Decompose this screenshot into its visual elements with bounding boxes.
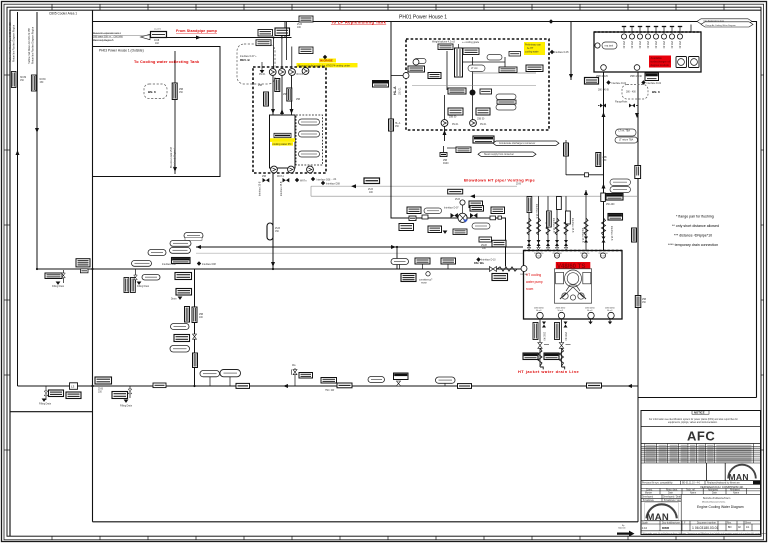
ellipse near x=638 (615, 137, 638, 143)
svg-text:25B 40: 25B 40 (622, 41, 624, 49)
engine cross-section graphic (554, 269, 591, 303)
drain set A below bus269 (45, 273, 62, 279)
engine supply flex columns (528, 196, 530, 250)
ellipse LT circuit TBA (468, 65, 485, 72)
ellipse left small (414, 59, 426, 64)
svg-text:water pump: water pump (526, 280, 543, 284)
svg-text:Rev.: Rev. (727, 522, 732, 524)
svg-text:Filling Drain: Filling Drain (39, 403, 52, 406)
C805 cooler area right wall (92, 10, 94, 522)
instrument on x=566 (564, 143, 569, 156)
svg-text:** only short distance allowed: ** only short distance allowed (672, 224, 719, 228)
svg-text:25B: 25B (296, 99, 301, 101)
svg-text:Interface 25-B: Interface 25-B (581, 228, 584, 243)
title block left boundary (638, 398, 757, 522)
small rects (409, 216, 416, 221)
svg-text:Turbine Salt Water Pipe 1 NO-3: Turbine Salt Water Pipe 1 NO-39A 05B (9, 22, 12, 62)
riser x=397 (396, 247, 398, 269)
tag left column b (428, 73, 441, 79)
small tag on bus386 x153 (153, 383, 166, 388)
svg-text:exp.tank: exp.tank (605, 45, 615, 48)
svg-text:L3: L3 (71, 385, 75, 389)
module bottom pumps (271, 166, 278, 173)
tag right column (526, 65, 543, 72)
svg-text:Filling Drain: Filling Drain (52, 285, 65, 288)
svg-text:IN GRADE: IN GRADE (320, 59, 333, 63)
svg-text:Interface 25-B: Interface 25-B (610, 226, 613, 241)
svg-text:Released: Released (730, 489, 740, 491)
HT supply pipe x=391 (391, 22, 506, 267)
svg-text:Main body Region 1: Main body Region 1 (175, 147, 177, 168)
svg-text:1018: 1018 (154, 40, 160, 42)
valve on bus269 x489 (490, 267, 497, 272)
tags lower (448, 108, 463, 115)
heat exchanger column (455, 48, 463, 77)
svg-text:25B: 25B (179, 89, 184, 91)
svg-text:cooling water: cooling water (525, 51, 539, 54)
svg-text:**** temporary drain connectio: **** temporary drain connection (668, 243, 718, 247)
tag above module 2 (275, 28, 290, 36)
tag (456, 147, 471, 153)
svg-text:Main body Region 5: Main body Region 5 (93, 40, 114, 42)
svg-text:50 m3: 50 m3 (587, 310, 592, 312)
tag x458 on bus386 (458, 384, 472, 389)
expansion tank box (594, 32, 701, 72)
tank vent stubs (623, 27, 625, 34)
tag on bus386 x236 (236, 383, 250, 388)
right flex columns (584, 218, 588, 236)
svg-text:B.Gabriele / Lau: B.Gabriele / Lau (664, 499, 681, 502)
svg-text:LT circ.: LT circ. (471, 67, 479, 70)
MAN logo right (728, 465, 756, 479)
svg-text:25B 40: 25B 40 (646, 41, 648, 49)
svg-text:Previous file sys. compatibili: Previous file sys. compatibility (642, 482, 673, 485)
svg-text:consistency?: consistency? (419, 279, 433, 282)
svg-text:Steam supply from conserver: Steam supply from conserver (484, 153, 514, 156)
svg-text:25B: 25B (603, 157, 608, 159)
tag above module 1b (256, 40, 271, 46)
right main vertical pipe x=638 (637, 72, 639, 522)
junction dot riser (396, 246, 398, 248)
svg-text:RV-01: RV-01 (297, 74, 304, 76)
tank internals right (676, 57, 687, 68)
tags below tank (585, 78, 599, 85)
svg-text:25-B: 25-B (275, 228, 280, 230)
box with valve x394-408 above bus386 (394, 373, 409, 380)
L3 tag on bus386 (70, 383, 78, 390)
interface D-02 diamonds (606, 80, 610, 84)
svg-text:25B: 25B (283, 94, 288, 96)
svg-text:Const.: Const. (646, 488, 653, 491)
svg-text:LT ret. TBA: LT ret. TBA (619, 129, 631, 132)
main drain bus y=386 (18, 385, 639, 387)
strike-through source labels (93, 32, 124, 42)
svg-text:R100: R100 (443, 163, 449, 165)
svg-text:BN. 8: BN. 8 (652, 90, 660, 94)
ellipse LT below tank (616, 129, 637, 136)
tags mid cluster (448, 88, 466, 94)
svg-text:Doc-building-type: Doc-building-type (662, 521, 681, 524)
tags top row (438, 44, 453, 50)
instrument on pipe2 (31, 75, 36, 91)
ellipse stack right (496, 94, 516, 100)
tag with text below (479, 237, 492, 242)
svg-text:BE-01.11.10 - 4-0: BE-01.11.10 - 4-0 (682, 483, 701, 485)
svg-text:RV-01: RV-01 (259, 74, 266, 76)
interface D08 diamond under module (321, 181, 325, 185)
svg-text:Weight/volume 4.2 m3: Weight/volume 4.2 m3 (432, 41, 456, 44)
LT cooling water module dashed box (253, 67, 326, 173)
svg-text:Light Replenishing from: Light Replenishing from (703, 20, 724, 23)
svg-text:Sheet: Sheet (745, 521, 751, 524)
svg-text:Charge Air Cooling Water Diagr: Charge Air Cooling Water Diagram (705, 24, 736, 27)
svg-text:Turbine Salt Water Arm NO-39 0: Turbine Salt Water Arm NO-39 05B (28, 28, 31, 64)
svg-text:25B 50: 25B 50 (477, 119, 485, 121)
replenishing riser x=292 (284, 22, 286, 38)
svg-text:Name: Name (733, 493, 740, 495)
module outlet pipe x=273 (272, 173, 274, 269)
svg-text:05B water 508 ++ GHGHW: 05B water 508 ++ GHGHW (93, 36, 124, 39)
svg-text:Condensate discharge to conser: Condensate discharge to conserver (499, 142, 535, 145)
revision cloud REV.B (237, 44, 275, 84)
svg-text:NO39: NO39 (20, 77, 27, 79)
small black tag (440, 153, 447, 157)
instrument tags on flex columns (527, 197, 532, 213)
instrument on x638 upper (635, 296, 641, 308)
pipe: cooler supply left 1 (17, 12, 19, 386)
bowtie valves (451, 213, 458, 218)
flange valves (598, 104, 606, 108)
svg-text:MAN: MAN (647, 512, 670, 523)
svg-text:BN. 8: BN. 8 (148, 90, 156, 94)
svg-text:25B3 25/40: 25B3 25/40 (630, 76, 642, 78)
red engine type plate (556, 262, 591, 269)
svg-text:WAT-1: WAT-1 (277, 175, 284, 178)
engine inlet labels row (536, 253, 541, 258)
title block outer (641, 411, 761, 535)
drain tag boxes (523, 353, 538, 360)
capsule x368 on bus386 (368, 377, 385, 383)
tag mid right (499, 67, 517, 73)
drain triangle (443, 231, 448, 234)
svg-text:turbocharger oil: turbocharger oil (651, 60, 671, 64)
svg-text:280 - 40 B: 280 - 40 B (598, 90, 609, 92)
svg-text:25-B: 25-B (297, 24, 302, 26)
replenishing line y=37.5 (166, 37, 292, 39)
svg-text:150 G1: 150 G1 (400, 87, 402, 95)
ellipse top right (487, 55, 502, 61)
svg-text:AFC: AFC (687, 429, 715, 444)
pipes in HT box (446, 51, 448, 90)
svg-text:25B: 25B (443, 160, 448, 162)
svg-text:25B3 40: 25B3 40 (564, 332, 566, 341)
svg-text:HL-A: HL-A (395, 122, 401, 125)
revision cloud right (622, 85, 648, 100)
pump source box (151, 32, 167, 38)
instrument on pipe1 (11, 72, 16, 88)
revision table (641, 444, 761, 464)
TUV black mark (753, 481, 761, 485)
svg-text:MAN: MAN (729, 472, 749, 482)
svg-text:Reservoir expansion tank 1: Reservoir expansion tank 1 (93, 32, 122, 35)
svg-text:50 m3: 50 m3 (582, 255, 587, 257)
small drain stub in cloud (261, 62, 263, 70)
svg-text:VER/Watch/CA / COMPKW/M 4th: VER/Watch/CA / COMPKW/M 4th (700, 485, 744, 489)
svg-text:50 m3: 50 m3 (536, 310, 541, 312)
supply banner flag (141, 34, 151, 39)
svg-text:be HT: be HT (527, 48, 534, 50)
PH03 Power House box (93, 47, 221, 177)
svg-text:Interface D08: Interface D08 (202, 263, 217, 266)
yellow note in HT box (524, 42, 545, 55)
svg-text:Preliminary can: Preliminary can (525, 44, 542, 47)
drain riser x=194.5 (194, 269, 196, 386)
svg-text:equipments, pipings, valves an: equipments, pipings, valves and instrume… (668, 421, 718, 424)
capsule x436 stem (444, 383, 446, 386)
inline valve on x=391 (389, 119, 394, 131)
module pumps row (269, 69, 276, 76)
drain set D below bus386 (112, 392, 128, 399)
svg-text:Blowdown HT pipe/ Venting Pipe: Blowdown HT pipe/ Venting Pipe (464, 178, 535, 183)
tag on bus x=587 (587, 383, 602, 388)
gray connector (310, 186, 312, 196)
svg-text:Interface D08: Interface D08 (317, 179, 332, 182)
module instruments (264, 92, 269, 106)
svg-text:B.Gabriele: B.Gabriele (643, 499, 655, 502)
svg-text:250-400: 250-400 (606, 204, 615, 206)
svg-text:25-B: 25-B (516, 184, 521, 186)
riser components x194.5 (192, 307, 197, 323)
blue actuator mark (463, 220, 468, 223)
tag above module 3 (299, 47, 313, 54)
svg-text:50 m3: 50 m3 (607, 310, 612, 312)
svg-text:Interface 25-B: Interface 25-B (552, 218, 555, 233)
svg-text:DWR: DWR (662, 526, 670, 530)
svg-text:Document number: Document number (697, 521, 716, 524)
svg-text:Interface D-05: Interface D-05 (554, 51, 569, 54)
svg-text:Developed / Draft: Developed / Draft (663, 495, 681, 498)
svg-text:25-B: 25-B (368, 189, 373, 191)
svg-text:Interface D-07: Interface D-07 (444, 207, 459, 210)
PH01 Power House 1 boundary (93, 22, 757, 398)
svg-text:*****: ***** (566, 343, 571, 347)
svg-text:DN / Wa: DN / Wa (474, 261, 484, 265)
svg-text:xx-xxOn: xx-xxOn (154, 29, 161, 31)
svg-text:Filling Drain: Filling Drain (137, 285, 150, 288)
svg-text:*** distance ‹DNpipe*10: *** distance ‹DNpipe*10 (674, 234, 712, 238)
module solid box (270, 115, 296, 168)
black tag below HT (473, 136, 494, 143)
svg-text:degree module: degree module (651, 63, 670, 67)
tag at replenishing riser (299, 16, 313, 22)
tank outlet pipe x=603.5 (603, 72, 605, 251)
svg-text:Scale: Scale (642, 522, 648, 524)
feed lines into module top (273, 38, 275, 70)
svg-text:reuse: reuse (421, 282, 427, 285)
module yellow name tag (274, 133, 291, 137)
svg-text:REV. B: REV. B (240, 58, 251, 62)
vent gray line y=196 (311, 195, 638, 197)
junction dots on replenishing line (273, 37, 275, 39)
steam line y=175 (566, 174, 604, 176)
svg-text:Filling Drain: Filling Drain (120, 405, 133, 408)
svg-text:25B 40: 25B 40 (630, 41, 632, 49)
svg-text:Interface 25-B: Interface 25-B (280, 181, 283, 196)
capsule stems above bus386 (209, 377, 211, 386)
arrow into bus386 (283, 384, 288, 388)
gray line y=253 (196, 252, 523, 254)
tag above module 1 (258, 30, 273, 37)
svg-text:room: room (526, 287, 534, 291)
tag pair x321-352 above bus386 (321, 378, 337, 384)
svg-text:50 m3: 50 m3 (558, 310, 563, 312)
svg-text:Interface D-02: Interface D-02 (647, 82, 662, 85)
svg-text:HT jacket water drain Line: HT jacket water drain Line (518, 369, 580, 374)
three-way valve filled (470, 90, 476, 96)
ellipses right mid (610, 179, 631, 186)
ellipse LT return (424, 208, 442, 214)
svg-text:HT cooling: HT cooling (526, 273, 541, 277)
HT pipe x=571 (570, 22, 572, 81)
svg-text:25B 40: 25B 40 (654, 41, 656, 49)
svg-text:LT return TBA: LT return TBA (619, 138, 634, 141)
LT return line y=247 (196, 246, 523, 248)
drawing bottom boundary (93, 521, 639, 523)
svg-text:Gabriele: Gabriele (618, 528, 626, 530)
svg-text:*****: ***** (544, 343, 549, 347)
svg-text:Interface 25-B: Interface 25-B (535, 204, 538, 219)
notes text (668, 215, 719, 248)
internal gray pipes (412, 85, 536, 87)
revision cloud BN.8 left (144, 84, 167, 99)
consistency tag below bus269 (401, 274, 416, 282)
svg-text:Blowdown tank 25-B: Blowdown tank 25-B (170, 147, 173, 168)
instruments on vertical pipes right (596, 153, 601, 167)
banner: condensate discharge (493, 141, 559, 145)
drain set C below bus386 (45, 386, 47, 400)
svg-text:Tech. ref.: Tech. ref. (686, 488, 696, 491)
ellipse LT xx (472, 223, 490, 229)
svg-text:25B: 25B (262, 176, 267, 178)
tags lower cluster (399, 224, 414, 231)
pipe: cooler supply left 2 (36, 12, 38, 269)
steam pipes (443, 146, 445, 152)
LT transfer pump (460, 200, 465, 205)
svg-text:50 m3: 50 m3 (600, 255, 605, 257)
module dashed sub box (296, 115, 323, 165)
svg-text:25B 40: 25B 40 (638, 41, 640, 49)
svg-text:Name: Name (690, 493, 697, 495)
circles on bus269 right (521, 266, 527, 272)
banner: steam supply (478, 152, 536, 156)
svg-text:Drain: Drain (171, 298, 177, 301)
svg-text:25-B: 25-B (455, 199, 460, 201)
signature rows left (641, 494, 681, 534)
sub box ellipses (299, 119, 320, 125)
svg-text:RV-01: RV-01 (480, 124, 487, 126)
svg-text:Interface D08: Interface D08 (162, 263, 177, 266)
tag left column a (408, 66, 425, 72)
tag on blowdown line (364, 178, 380, 184)
HT cooling water module dashed box (406, 39, 549, 130)
junction dots (91, 268, 93, 270)
svg-text:Developed: Developed (642, 496, 654, 498)
svg-text:25B 40: 25B 40 (662, 41, 664, 49)
horizontal zigzag on bus269 (497, 267, 517, 271)
tag above vent line (448, 189, 463, 194)
svg-text:Weitergabe sowie Vervielfaelti: Weitergabe sowie Vervielfaeltigung diese… (643, 532, 768, 535)
tag left of HL-A (373, 81, 389, 88)
svg-text:RV-01: RV-01 (452, 124, 459, 126)
strainer (267, 223, 273, 240)
banner flag top right (697, 19, 752, 24)
svg-text:Interface 25-B: Interface 25-B (259, 181, 262, 196)
svg-text:C805 Cooler Area 1: C805 Cooler Area 1 (49, 12, 77, 16)
pipes down from HT module (444, 126, 446, 141)
svg-text:Date: Date (712, 492, 718, 495)
svg-text:NO39: NO39 (40, 79, 47, 81)
tags around cluster (407, 207, 421, 214)
svg-text:Resp. dept.: Resp. dept. (666, 488, 678, 491)
svg-text:25B3 40: 25B3 40 (520, 274, 527, 276)
pump circle left edge (403, 73, 409, 79)
svg-text:50 m3: 50 m3 (536, 255, 541, 257)
junction dot (91, 385, 93, 387)
drain columns below engine (539, 319, 541, 367)
red note in tank (649, 56, 671, 68)
svg-text:280 - 400: 280 - 400 (626, 92, 636, 94)
svg-text:25-B: 25-B (98, 389, 103, 391)
svg-text:750 / 4W: 750 / 4W (325, 390, 335, 392)
approval section (706, 463, 708, 481)
svg-text:25/28: 25/28 (481, 245, 487, 247)
C805 area bottom line (10, 411, 93, 413)
svg-text:Return line Pipeline Diagram R: Return line Pipeline Diagram Region (32, 26, 35, 64)
svg-text:For information see identifica: For information see identification syste… (649, 418, 738, 421)
capsule stack at LT return start (170, 241, 191, 247)
tag below bus269 x492 (492, 274, 508, 281)
svg-text:HL-A: HL-A (393, 86, 397, 95)
svg-text:Muster: Muster (645, 492, 652, 495)
svg-text:FlangePairs: FlangePairs (615, 101, 628, 104)
svg-text:BN: BN (728, 526, 732, 529)
svg-text:++ cooling grade: ++ cooling grade (462, 41, 480, 44)
bottom strip (641, 521, 761, 531)
tag on LT return line (492, 240, 506, 247)
svg-text:WAT-x: WAT-x (300, 180, 307, 183)
diamond on PH01 line right (709, 19, 713, 23)
info rows (641, 481, 761, 495)
svg-text:PH03 Power House 1 (Outside): PH03 Power House 1 (Outside) (99, 49, 144, 53)
svg-text:Interface 25-B: Interface 25-B (571, 218, 574, 233)
tag above bus386 x95 (95, 377, 112, 384)
arrow on left pipe2 (35, 128, 39, 133)
svg-text:From Standpipe pump: From Standpipe pump (176, 29, 218, 33)
svg-text:25B: 25B (642, 299, 647, 301)
module internal pipes (272, 76, 274, 116)
banner feed line (690, 25, 692, 33)
svg-text:Engine Cooling Water Diagram: Engine Cooling Water Diagram (697, 505, 744, 509)
svg-text:Interface D08: Interface D08 (326, 183, 341, 186)
svg-text:1 06.03180.03.01: 1 06.03180.03.01 (692, 526, 719, 530)
white box above capsules (185, 238, 202, 241)
arrow on left pipe1 (16, 150, 20, 155)
MAN logo bottom left (645, 503, 679, 521)
svg-text:To LP Replenishing Tank: To LP Replenishing Tank (331, 20, 387, 25)
tags above bus269 x415,x441 (415, 258, 430, 264)
tags column x175 (175, 273, 192, 280)
svg-text:cooling water PC: cooling water PC (273, 143, 292, 146)
